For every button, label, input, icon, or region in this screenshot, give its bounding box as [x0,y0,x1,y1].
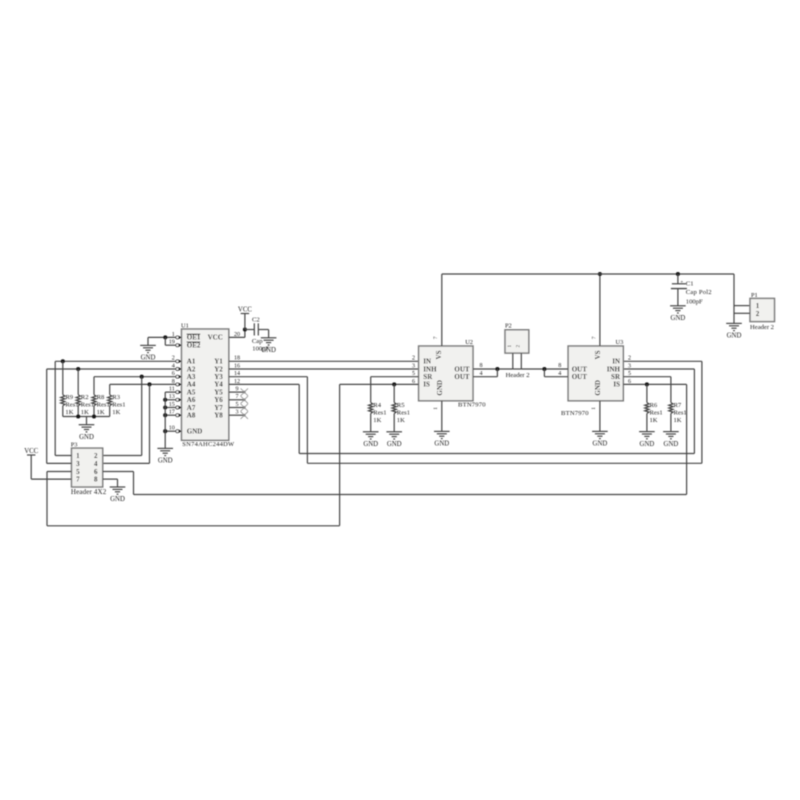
svg-text:R5: R5 [397,402,405,409]
svg-text:1: 1 [433,407,439,410]
svg-text:1K: 1K [674,417,682,424]
svg-text:Cap: Cap [252,338,263,345]
svg-text:GND: GND [436,380,444,396]
svg-text:GND: GND [79,434,94,441]
svg-text:2: 2 [628,356,631,362]
svg-text:IS: IS [423,381,430,389]
svg-text:+: + [680,279,683,285]
svg-text:U1: U1 [181,323,189,330]
svg-text:P2: P2 [505,323,512,330]
svg-text:R7: R7 [674,402,682,409]
svg-text:SN74AHC244DW: SN74AHC244DW [182,441,235,448]
svg-text:OUT: OUT [572,373,588,381]
svg-text:7: 7 [433,336,439,339]
svg-text:1K: 1K [373,417,381,424]
svg-text:Header 2: Header 2 [750,324,774,331]
svg-text:8: 8 [94,476,98,484]
svg-text:7: 7 [591,336,597,339]
svg-text:R9: R9 [65,394,73,401]
svg-text:100pF: 100pF [252,346,269,353]
svg-text:3: 3 [76,460,80,468]
svg-text:Header 2: Header 2 [506,372,530,379]
svg-text:GND: GND [158,458,173,465]
svg-text:P1: P1 [751,292,758,299]
svg-text:VS: VS [435,350,443,359]
svg-text:2: 2 [516,344,522,347]
svg-text:4: 4 [479,371,482,377]
svg-text:A8: A8 [187,412,196,420]
svg-text:Res1: Res1 [650,409,663,416]
svg-text:GND: GND [434,441,449,448]
svg-text:1K: 1K [112,409,120,416]
svg-text:7: 7 [76,476,80,484]
svg-text:P3: P3 [71,442,78,449]
svg-text:VCC: VCC [24,448,38,455]
svg-text:GND: GND [664,441,679,448]
svg-text:Res1: Res1 [674,409,687,416]
svg-text:1K: 1K [97,409,105,416]
svg-text:GND: GND [187,428,203,436]
svg-text:2: 2 [94,452,98,460]
svg-text:8: 8 [558,363,561,369]
svg-text:GND: GND [594,380,602,396]
svg-text:GND: GND [363,441,378,448]
svg-text:Y8: Y8 [214,412,223,420]
svg-text:GND: GND [671,315,686,322]
svg-text:1K: 1K [650,417,658,424]
svg-text:100pF: 100pF [686,299,703,306]
svg-text:2: 2 [412,356,415,362]
svg-text:1K: 1K [397,417,405,424]
svg-text:1: 1 [76,452,80,460]
svg-text:3: 3 [412,363,415,369]
svg-text:IS: IS [613,381,620,389]
svg-text:3: 3 [628,363,631,369]
svg-text:4: 4 [558,371,561,377]
svg-text:8: 8 [479,363,482,369]
svg-text:C1: C1 [686,281,694,288]
svg-text:Res1: Res1 [373,409,386,416]
svg-text:OE1: OE1 [187,334,201,342]
svg-text:C2: C2 [252,317,260,324]
svg-text:GND: GND [141,355,156,362]
svg-text:R8: R8 [97,394,105,401]
svg-text:OE2: OE2 [187,342,201,350]
svg-text:Res1: Res1 [112,402,125,409]
svg-text:GND: GND [110,496,125,503]
svg-text:OUT: OUT [454,373,470,381]
svg-text:GND: GND [387,441,402,448]
svg-text:2: 2 [756,310,760,318]
svg-text:R3: R3 [112,394,120,401]
svg-text:R4: R4 [373,402,381,409]
svg-text:Res1: Res1 [397,409,410,416]
svg-text:BTN7970: BTN7970 [458,402,486,409]
svg-text:Cap Pol2: Cap Pol2 [686,289,712,296]
svg-text:VCC: VCC [238,306,252,313]
svg-text:1: 1 [591,407,597,410]
svg-text:BTN7970: BTN7970 [561,410,589,417]
svg-text:R2: R2 [81,394,89,401]
svg-text:GND: GND [640,441,655,448]
svg-text:1: 1 [507,344,513,347]
svg-text:U3: U3 [615,339,623,346]
svg-text:4: 4 [94,460,98,468]
svg-text:Header 4X2: Header 4X2 [71,488,107,496]
svg-text:1K: 1K [65,409,73,416]
svg-text:GND: GND [593,441,608,448]
svg-text:R6: R6 [650,402,658,409]
svg-text:VCC: VCC [208,334,223,342]
svg-text:1K: 1K [81,409,89,416]
svg-text:GND: GND [727,333,742,340]
svg-text:U2: U2 [465,339,473,346]
svg-text:VS: VS [594,350,602,359]
